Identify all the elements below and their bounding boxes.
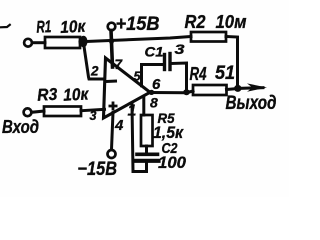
- svg-text:100: 100: [158, 153, 187, 172]
- svg-text:3: 3: [90, 109, 97, 123]
- svg-text:−15В: −15В: [78, 159, 118, 180]
- svg-text:2: 2: [90, 64, 99, 79]
- svg-text:Выход: Выход: [226, 92, 277, 114]
- svg-text:8: 8: [150, 95, 158, 111]
- svg-text:+15В: +15В: [116, 13, 160, 35]
- svg-text:R3: R3: [37, 85, 58, 105]
- svg-text:R4: R4: [190, 64, 207, 84]
- svg-text:R1: R1: [36, 17, 52, 37]
- svg-text:Вход: Вход: [2, 117, 39, 137]
- svg-text:R2: R2: [185, 11, 207, 32]
- svg-text:С1: С1: [145, 44, 164, 60]
- svg-text:10м: 10м: [216, 11, 247, 32]
- svg-text:5: 5: [134, 70, 142, 84]
- svg-text:51: 51: [215, 63, 235, 84]
- svg-text:6: 6: [152, 76, 161, 93]
- svg-text:10к: 10к: [63, 84, 90, 104]
- svg-text:3: 3: [175, 41, 185, 57]
- svg-text:10к: 10к: [60, 17, 87, 37]
- svg-text:1: 1: [128, 103, 137, 120]
- svg-text:4: 4: [114, 117, 124, 134]
